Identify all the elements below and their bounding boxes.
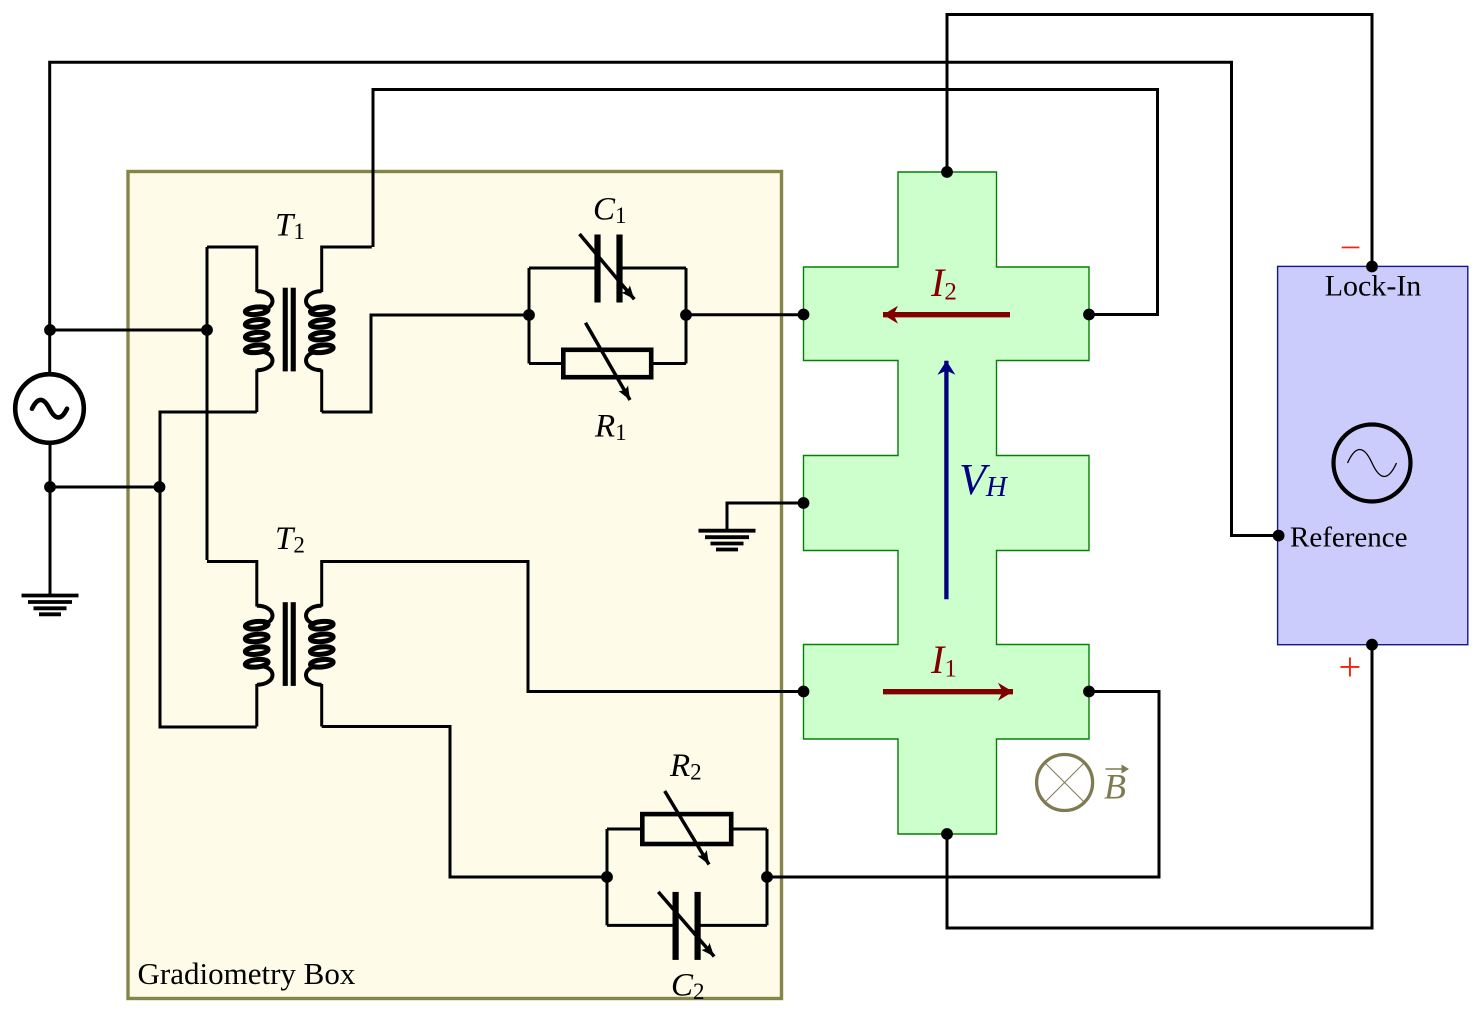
wire from hall-bar top port to Lock-In minus terminal — [947, 15, 1372, 267]
Hall voltage arrow VH — [944, 361, 948, 600]
node: hall-bar top port — [941, 166, 953, 178]
wire from AC source bottom to node — [50, 443, 160, 487]
junction: R2/C2 left node — [601, 871, 613, 883]
wire from hall-bar middle port to ground — [727, 503, 804, 530]
transformer T2 — [207, 562, 372, 727]
Gradiometry Box enclosure — [128, 172, 782, 999]
node: hall-bar I1 right port — [1083, 686, 1095, 698]
wire from AC top node to T1/T2 primary verticals — [50, 329, 207, 332]
junction: T1-T2 primary top tie — [201, 324, 213, 336]
wire AC bottom node to ground — [49, 487, 52, 594]
transformer T1 — [207, 247, 372, 412]
node: Lock-In plus terminal — [1366, 639, 1378, 651]
T2 primary top lead — [207, 560, 257, 563]
variable capacitor C1 — [580, 234, 635, 303]
node: hall-bar I2 left port — [798, 309, 810, 321]
junction: AC source top / primary feed node — [44, 324, 56, 336]
Lock-In box — [1278, 266, 1468, 644]
B vector label — [1104, 765, 1129, 807]
node: Lock-In minus terminal — [1366, 261, 1378, 273]
wire from hall-bar bottom port to Lock-In plus terminal — [947, 645, 1372, 928]
wire from AC source top to Lock-In Reference input — [50, 62, 1279, 535]
T2 secondary top lead to hall-bar I1 left port — [322, 562, 804, 692]
T2 secondary bottom lead to R2/C2 block — [322, 727, 607, 878]
variable capacitor C2 — [658, 892, 714, 960]
R2/C2 parallel block ring — [607, 829, 767, 925]
junction: primary return tie — [154, 481, 166, 493]
svg-text:Reference: Reference — [1290, 522, 1408, 554]
svg-text:Lock-In: Lock-In — [1325, 270, 1422, 303]
node: hall-bar I1 left port — [798, 686, 810, 698]
T1 secondary bottom lead to C1/R1 block — [322, 315, 529, 412]
wire from T1 primary bottom to T2 primary bottom — [160, 412, 257, 727]
node: hall-bar bottom port — [941, 828, 953, 840]
C1/R1 parallel block ring — [529, 268, 686, 364]
Hall bar (green cross sample) — [804, 172, 1090, 834]
ground (main, below AC source) — [22, 596, 79, 615]
ground (hall-bar voltage reference) — [699, 531, 756, 550]
Lock-In internal sine source — [1334, 425, 1411, 502]
junction: R2/C2 right node — [761, 871, 773, 883]
B field symbol (into page) — [1037, 755, 1093, 811]
junction: C1/R1 left node — [523, 309, 535, 321]
current arrow I2 — [883, 312, 1010, 317]
AC source (sine generator) — [15, 374, 84, 443]
wire from T1 secondary top to hall-bar I2 right port — [373, 90, 1158, 315]
junction: AC source bottom / ground node — [44, 481, 56, 493]
variable resistor R2 — [642, 791, 731, 865]
wire vertical joining T1 and T2 primary tops — [206, 247, 209, 560]
wire from C1/R1 right node to hall-bar I2 left port — [686, 313, 804, 316]
svg-text:Gradiometry Box: Gradiometry Box — [138, 956, 356, 991]
junction: C1/R1 right node — [680, 309, 692, 321]
node: hall-bar I2 right port — [1083, 309, 1095, 321]
minus terminal label — [1342, 247, 1360, 249]
node: hall-bar middle (ground) port — [798, 497, 810, 509]
plus terminal label — [1340, 658, 1359, 677]
node: Lock-In Reference terminal — [1273, 530, 1285, 542]
current arrow I1 — [883, 689, 1013, 694]
variable resistor R1 — [563, 323, 651, 400]
wire from R2/C2 right node to hall-bar I1 right port — [767, 692, 1159, 878]
